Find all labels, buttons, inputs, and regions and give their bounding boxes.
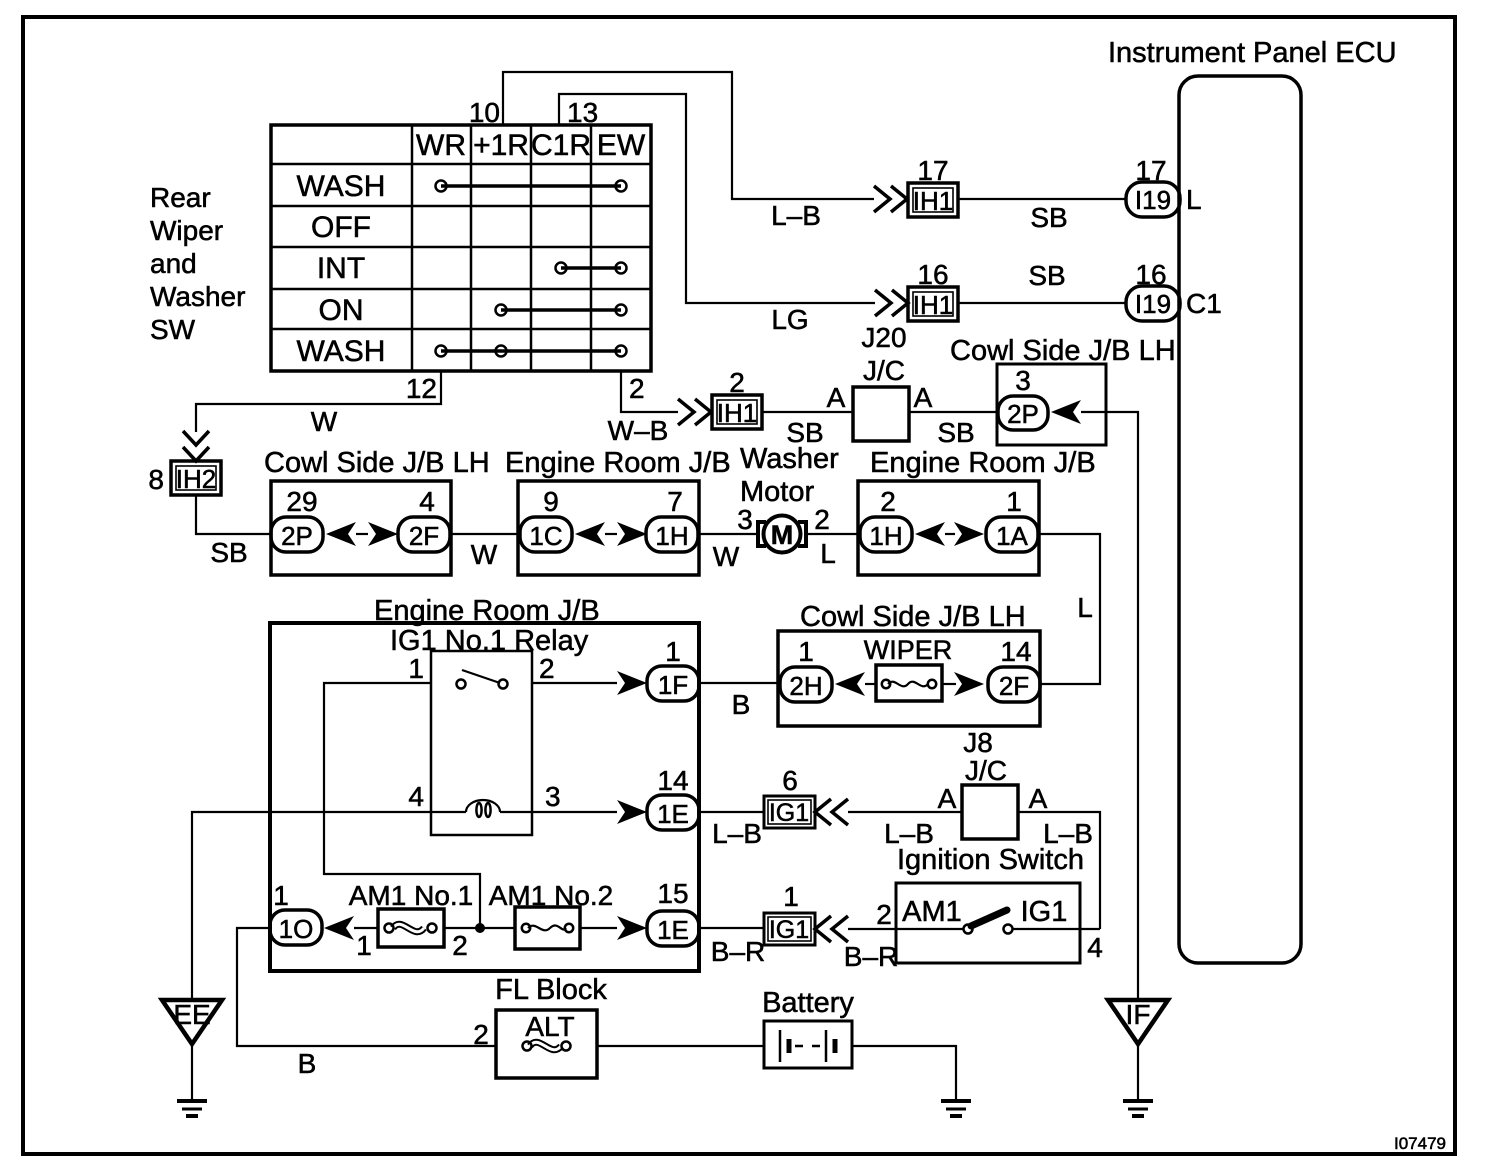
svg-text:IG1: IG1 [769, 916, 809, 944]
svg-text:16: 16 [1135, 259, 1166, 290]
arrow chevrons out of IG1 pin6 [815, 799, 848, 825]
wire label W [471, 539, 498, 570]
wire AM1 No.2 to 1E [580, 927, 617, 929]
svg-text:13: 13 [567, 97, 598, 128]
svg-text:2: 2 [814, 504, 830, 535]
svg-text:W: W [713, 541, 740, 572]
arrow black chevron into 2H [835, 672, 865, 696]
svg-text:J/C: J/C [863, 355, 905, 386]
switch contact row WASH (WR-EW) [436, 181, 627, 192]
svg-text:AM1 No.1: AM1 No.1 [349, 880, 474, 911]
wire motor to 1H [807, 533, 858, 535]
svg-text:A: A [914, 382, 933, 413]
pin label 12 [406, 373, 437, 404]
wire battery to ground [852, 1046, 956, 1101]
arrow pair 2P-2F [326, 522, 398, 546]
box Cowl Side J/B LH (wiper fuse) [778, 601, 1040, 726]
connector 1A pin1 [986, 486, 1038, 552]
svg-text:B–R: B–R [844, 941, 898, 972]
svg-text:L: L [1186, 184, 1202, 215]
arrow chevrons out of IG1 pin1 [815, 916, 848, 942]
svg-text:6: 6 [782, 765, 798, 796]
svg-text:B: B [298, 1048, 317, 1079]
svg-text:INT: INT [317, 252, 365, 285]
wire label L [820, 538, 836, 569]
svg-text:2H: 2H [789, 671, 822, 701]
connector 2P pin3 [998, 365, 1048, 430]
ground point IF [1108, 999, 1168, 1116]
connector I19 pin17 [1126, 155, 1180, 217]
svg-text:IG1: IG1 [1021, 896, 1068, 928]
wire IH1 to J20 [762, 411, 853, 413]
svg-text:9: 9 [543, 486, 559, 517]
svg-text:Cowl Side J/B LH: Cowl Side J/B LH [950, 335, 1176, 367]
svg-text:Instrument Panel ECU: Instrument Panel ECU [1108, 37, 1397, 69]
svg-text:10: 10 [469, 97, 500, 128]
connector IH1 pin16 [908, 259, 958, 321]
svg-text:SB: SB [1030, 202, 1067, 233]
svg-text:I19: I19 [1135, 185, 1171, 215]
wire 1O to B row [237, 928, 496, 1046]
svg-text:2: 2 [880, 486, 896, 517]
svg-text:WASH: WASH [297, 170, 386, 203]
svg-text:2F: 2F [999, 671, 1029, 701]
svg-text:3: 3 [737, 504, 753, 535]
svg-text:AM1 No.2: AM1 No.2 [489, 880, 614, 911]
fuse WIPER [864, 635, 953, 701]
svg-text:IH1: IH1 [913, 186, 953, 216]
switch contact row INT (C1R-EW) [556, 263, 627, 274]
wire 1F to 2H [699, 682, 780, 684]
connector 1C pin9 [520, 486, 572, 552]
svg-text:7: 7 [667, 486, 683, 517]
box Cowl Side J/B LH (3/2P) [950, 335, 1176, 445]
svg-text:1E: 1E [657, 915, 689, 945]
svg-text:WIPER: WIPER [864, 635, 953, 665]
svg-text:8: 8 [148, 464, 164, 495]
svg-text:I07479: I07479 [1394, 1134, 1446, 1153]
arrow chevrons W-B row [678, 399, 711, 425]
connector 2H pin1 [780, 636, 832, 702]
wire label B [732, 689, 751, 720]
wire 1H to motor [699, 533, 758, 535]
svg-text:2: 2 [729, 367, 745, 398]
wire relay pin3 to 1E [500, 811, 617, 813]
node L [1186, 184, 1202, 215]
wire J20 to 2P [909, 411, 998, 413]
connector 1E pin15 [647, 878, 699, 946]
arrow black chevron into 1F [617, 671, 647, 695]
wire 2P to IF vertical [1081, 412, 1138, 999]
svg-text:ALT: ALT [525, 1011, 574, 1042]
battery BT1 [762, 987, 854, 1068]
svg-text:1O: 1O [279, 914, 314, 944]
wire pin10 to row17 [503, 72, 874, 199]
svg-text:J8: J8 [963, 727, 993, 758]
wire 2F to 1C [451, 533, 518, 535]
svg-text:B: B [732, 689, 751, 720]
box Engine Room J/B (9/7) [505, 447, 731, 575]
wire label L-B [712, 818, 762, 849]
wire AM1 No.1 to AM1 No.2 [444, 927, 515, 929]
arrow pair 1H-1A [915, 522, 984, 546]
svg-text:1: 1 [1006, 486, 1022, 517]
svg-text:Washer: Washer [740, 443, 839, 475]
ground point EE [162, 999, 222, 1116]
svg-text:1H: 1H [869, 521, 902, 551]
svg-text:OFF: OFF [311, 211, 371, 244]
svg-text:2F: 2F [409, 521, 439, 551]
svg-text:L: L [820, 538, 836, 569]
svg-text:C1: C1 [1186, 288, 1222, 319]
relay pin labels 1 2 [408, 653, 554, 684]
svg-text:Rear: Rear [150, 182, 211, 213]
switch SW2 Ignition Switch box [896, 883, 1080, 963]
svg-text:IH2: IH2 [176, 464, 216, 494]
wire 1E to IG1 [699, 811, 764, 813]
svg-text:1A: 1A [996, 521, 1028, 551]
pin label 1 (AM1 No.1 left) [356, 930, 372, 961]
svg-text:I19: I19 [1135, 289, 1171, 319]
pin label 2 ignition [876, 899, 892, 930]
wire label L-B [1043, 818, 1093, 849]
box Cowl Side J/B LH (29/4) [264, 447, 490, 575]
connector IG1 pin6 [764, 765, 815, 828]
fuse AM1 No.1 (fusible link) [349, 880, 474, 947]
svg-text:12: 12 [406, 373, 437, 404]
label FL Block [495, 974, 607, 1006]
node C1 [1186, 288, 1222, 319]
relay pin labels 4 3 [408, 781, 560, 812]
svg-text:SB: SB [210, 537, 247, 568]
wire label L [1077, 592, 1093, 623]
box Engine Room J/B (2/1) [858, 447, 1096, 575]
svg-text:A: A [827, 382, 846, 413]
wire label SB row16 [1028, 260, 1065, 291]
svg-text:2P: 2P [1007, 399, 1039, 429]
svg-text:WR: WR [416, 129, 466, 162]
pin label 4 ignition [1087, 932, 1103, 963]
wire pin2 to IH1 [621, 371, 678, 412]
svg-text:J/C: J/C [965, 755, 1007, 786]
svg-text:1: 1 [783, 881, 799, 912]
switch contact row WASH2 (WR-+1R-EW) [436, 346, 627, 357]
svg-text:1: 1 [356, 930, 372, 961]
svg-text:3: 3 [1015, 365, 1031, 396]
box Engine Room J/B (relay block) [270, 595, 699, 971]
connector IH2 pin8 [171, 461, 221, 495]
wire label W [311, 406, 338, 437]
wire label B-R [844, 941, 898, 972]
pin label 2 ALT [473, 1019, 489, 1050]
svg-text:L–B: L–B [712, 818, 762, 849]
wire label B [298, 1048, 317, 1079]
pin label 8 [148, 464, 164, 495]
svg-text:IF: IF [1126, 999, 1151, 1030]
svg-text:WASH: WASH [297, 335, 386, 368]
wire IH2 to 2P [196, 495, 271, 534]
svg-text:14: 14 [657, 765, 688, 796]
pin label 2 (EW) [629, 373, 645, 404]
svg-text:2: 2 [629, 373, 645, 404]
svg-text:A: A [938, 783, 957, 814]
svg-text:1C: 1C [529, 521, 562, 551]
svg-text:Battery: Battery [762, 987, 854, 1019]
wire fuse to 2F [942, 683, 956, 685]
svg-text:17: 17 [1135, 155, 1166, 186]
svg-text:Cowl Side J/B LH: Cowl Side J/B LH [264, 447, 490, 479]
svg-text:1: 1 [665, 636, 681, 667]
svg-text:2: 2 [473, 1019, 489, 1050]
wire 1A down to wiper fuse row [1038, 534, 1100, 683]
arrow black chevron out of 1O [324, 916, 354, 940]
svg-text:W–B: W–B [608, 415, 669, 446]
pin label 3 motor [737, 504, 753, 535]
svg-text:2P: 2P [281, 521, 313, 551]
ignition switch contacts [896, 910, 1080, 934]
arrow black chevron into 2F [954, 672, 984, 696]
wire label L-B row17 [771, 200, 821, 231]
wire pin12 to IH2 [196, 371, 441, 432]
svg-text:Wiper: Wiper [150, 215, 223, 246]
svg-text:15: 15 [657, 878, 688, 909]
svg-text:1: 1 [273, 880, 289, 911]
label Ignition Switch [897, 844, 1084, 876]
wire IG1 to J8 J/C [848, 811, 962, 813]
arrow black chevron into 1E pin15 [617, 916, 647, 940]
wire relay pin1 to junction [324, 683, 480, 924]
svg-text:L: L [1077, 592, 1093, 623]
svg-text:4: 4 [408, 781, 424, 812]
wire chevron to AM1 No.1 [354, 927, 378, 929]
svg-text:2: 2 [539, 653, 555, 684]
label Rear Wiper and Washer SW [150, 182, 245, 345]
label Instrument Panel ECU [1108, 37, 1397, 69]
motor M1 washer motor [740, 443, 839, 553]
pin label 2 (AM1 No.1 right) [452, 930, 468, 961]
wire pin13 to row16 [559, 94, 875, 303]
svg-text:W: W [471, 539, 498, 570]
svg-text:and: and [150, 248, 197, 279]
arrow chevrons down to IH2 [183, 431, 209, 461]
ground battery [941, 1101, 971, 1116]
connector 2F pin14 [988, 636, 1040, 702]
svg-text:2: 2 [452, 930, 468, 961]
arrow pair 1C-1H [575, 522, 647, 546]
label I07479 [1394, 1134, 1446, 1153]
svg-text:1E: 1E [657, 799, 689, 829]
wire label SB [210, 537, 247, 568]
connector 1O pin1 [270, 880, 322, 945]
connector IH1 pin17 [908, 155, 958, 217]
connector 1F pin1 [647, 636, 699, 701]
wire to fuse [865, 683, 876, 685]
svg-text:SW: SW [150, 314, 196, 345]
arrow chevrons row16 [875, 290, 908, 316]
wire label W-B [608, 415, 669, 446]
connector 2P pin29 [271, 486, 323, 552]
svg-text:1H: 1H [655, 521, 688, 551]
wire label L-B [884, 818, 934, 849]
svg-text:EW: EW [597, 129, 646, 162]
svg-text:LG: LG [771, 304, 808, 335]
wire relay pin2 to 1F [532, 682, 617, 684]
wire label LG row16 [771, 304, 808, 335]
switch SW1 Rear Wiper and Washer SW table [271, 125, 651, 371]
junction J8 J/C [938, 755, 1048, 839]
pin label 2 motor [814, 504, 830, 535]
svg-text:B–R: B–R [711, 936, 765, 967]
wire IG1 to Ignition Switch [848, 928, 896, 930]
switch contact row ON (+1R-EW) [496, 305, 627, 316]
svg-text:1: 1 [408, 653, 424, 684]
wire IH1 to I19 row17 [958, 198, 1126, 200]
connector 1H pin2 [860, 486, 912, 552]
arrow black chevron into 2P [1051, 400, 1081, 424]
svg-text:L–B: L–B [771, 200, 821, 231]
connector 2F pin4 [398, 486, 450, 552]
connector 1E pin14 [647, 765, 699, 830]
connector IH1 pin2 [712, 367, 762, 429]
wire label W [713, 541, 740, 572]
svg-text:AM1: AM1 [902, 896, 962, 928]
wire label B-R [711, 936, 765, 967]
svg-text:3: 3 [545, 781, 561, 812]
wire label SB row17 [1030, 202, 1067, 233]
connector I19 pin16 [1126, 259, 1180, 321]
svg-text:Motor: Motor [740, 476, 814, 508]
svg-text:FL Block: FL Block [495, 974, 607, 1006]
wire ALT to battery [597, 1045, 764, 1047]
svg-text:IH1: IH1 [717, 398, 757, 428]
label J8 [963, 727, 993, 758]
svg-text:4: 4 [419, 486, 435, 517]
arrow black chevron into 1E pin14 [617, 800, 647, 824]
wire 2F to L vertical [1040, 683, 1100, 684]
wire relay pin4 to EE [192, 812, 466, 999]
svg-text:M: M [771, 520, 794, 550]
svg-text:1: 1 [798, 636, 814, 667]
svg-text:2: 2 [876, 899, 892, 930]
svg-text:Washer: Washer [150, 281, 245, 312]
svg-text:SB: SB [1028, 260, 1065, 291]
svg-text:W: W [311, 406, 338, 437]
svg-text:1F: 1F [658, 670, 688, 700]
ECU U1 Instrument Panel ECU body [1179, 76, 1301, 963]
svg-text:Engine Room J/B: Engine Room J/B [870, 447, 1096, 479]
junction dot [475, 923, 485, 933]
pin label 13 [567, 97, 598, 128]
arrow chevrons row17 [874, 186, 907, 212]
svg-text:16: 16 [917, 259, 948, 290]
wire IH1 to I19 row16 [958, 302, 1126, 304]
fuse ALT (fusible link) [496, 1010, 597, 1078]
fuse AM1 No.2 [489, 880, 614, 949]
relay coil [466, 800, 500, 817]
svg-text:J20: J20 [861, 322, 906, 353]
svg-text:SB: SB [937, 417, 974, 448]
relay K1 IG1 No.1 Relay [390, 625, 589, 835]
svg-text:Ignition Switch: Ignition Switch [897, 844, 1084, 876]
wire ignition pin4 to vertical [1080, 928, 1100, 930]
svg-text:EE: EE [173, 999, 210, 1030]
svg-text:Cowl Side J/B LH: Cowl Side J/B LH [800, 601, 1026, 633]
svg-text:C1R: C1R [531, 129, 591, 162]
svg-text:14: 14 [1000, 636, 1031, 667]
wire 1E to IG1 pin1 [699, 927, 764, 929]
svg-text:IH1: IH1 [913, 290, 953, 320]
pin label 10 [469, 97, 500, 128]
wire label SB [937, 417, 974, 448]
connector 1H pin7 [646, 486, 698, 552]
wire label SB [786, 417, 823, 448]
svg-text:Engine Room J/B: Engine Room J/B [374, 595, 600, 627]
relay switch contacts [457, 670, 508, 689]
svg-text:Engine Room J/B: Engine Room J/B [505, 447, 731, 479]
svg-text:IG1: IG1 [769, 799, 809, 827]
junction J20 J/C [827, 322, 933, 441]
svg-text:ON: ON [319, 294, 364, 327]
svg-text:17: 17 [917, 155, 948, 186]
svg-text:29: 29 [286, 486, 317, 517]
wire J/C to ignition vertical [1018, 812, 1100, 929]
connector IG1 pin1 [764, 881, 815, 945]
svg-text:4: 4 [1087, 932, 1103, 963]
svg-text:A: A [1029, 783, 1048, 814]
svg-text:+1R: +1R [473, 129, 529, 162]
